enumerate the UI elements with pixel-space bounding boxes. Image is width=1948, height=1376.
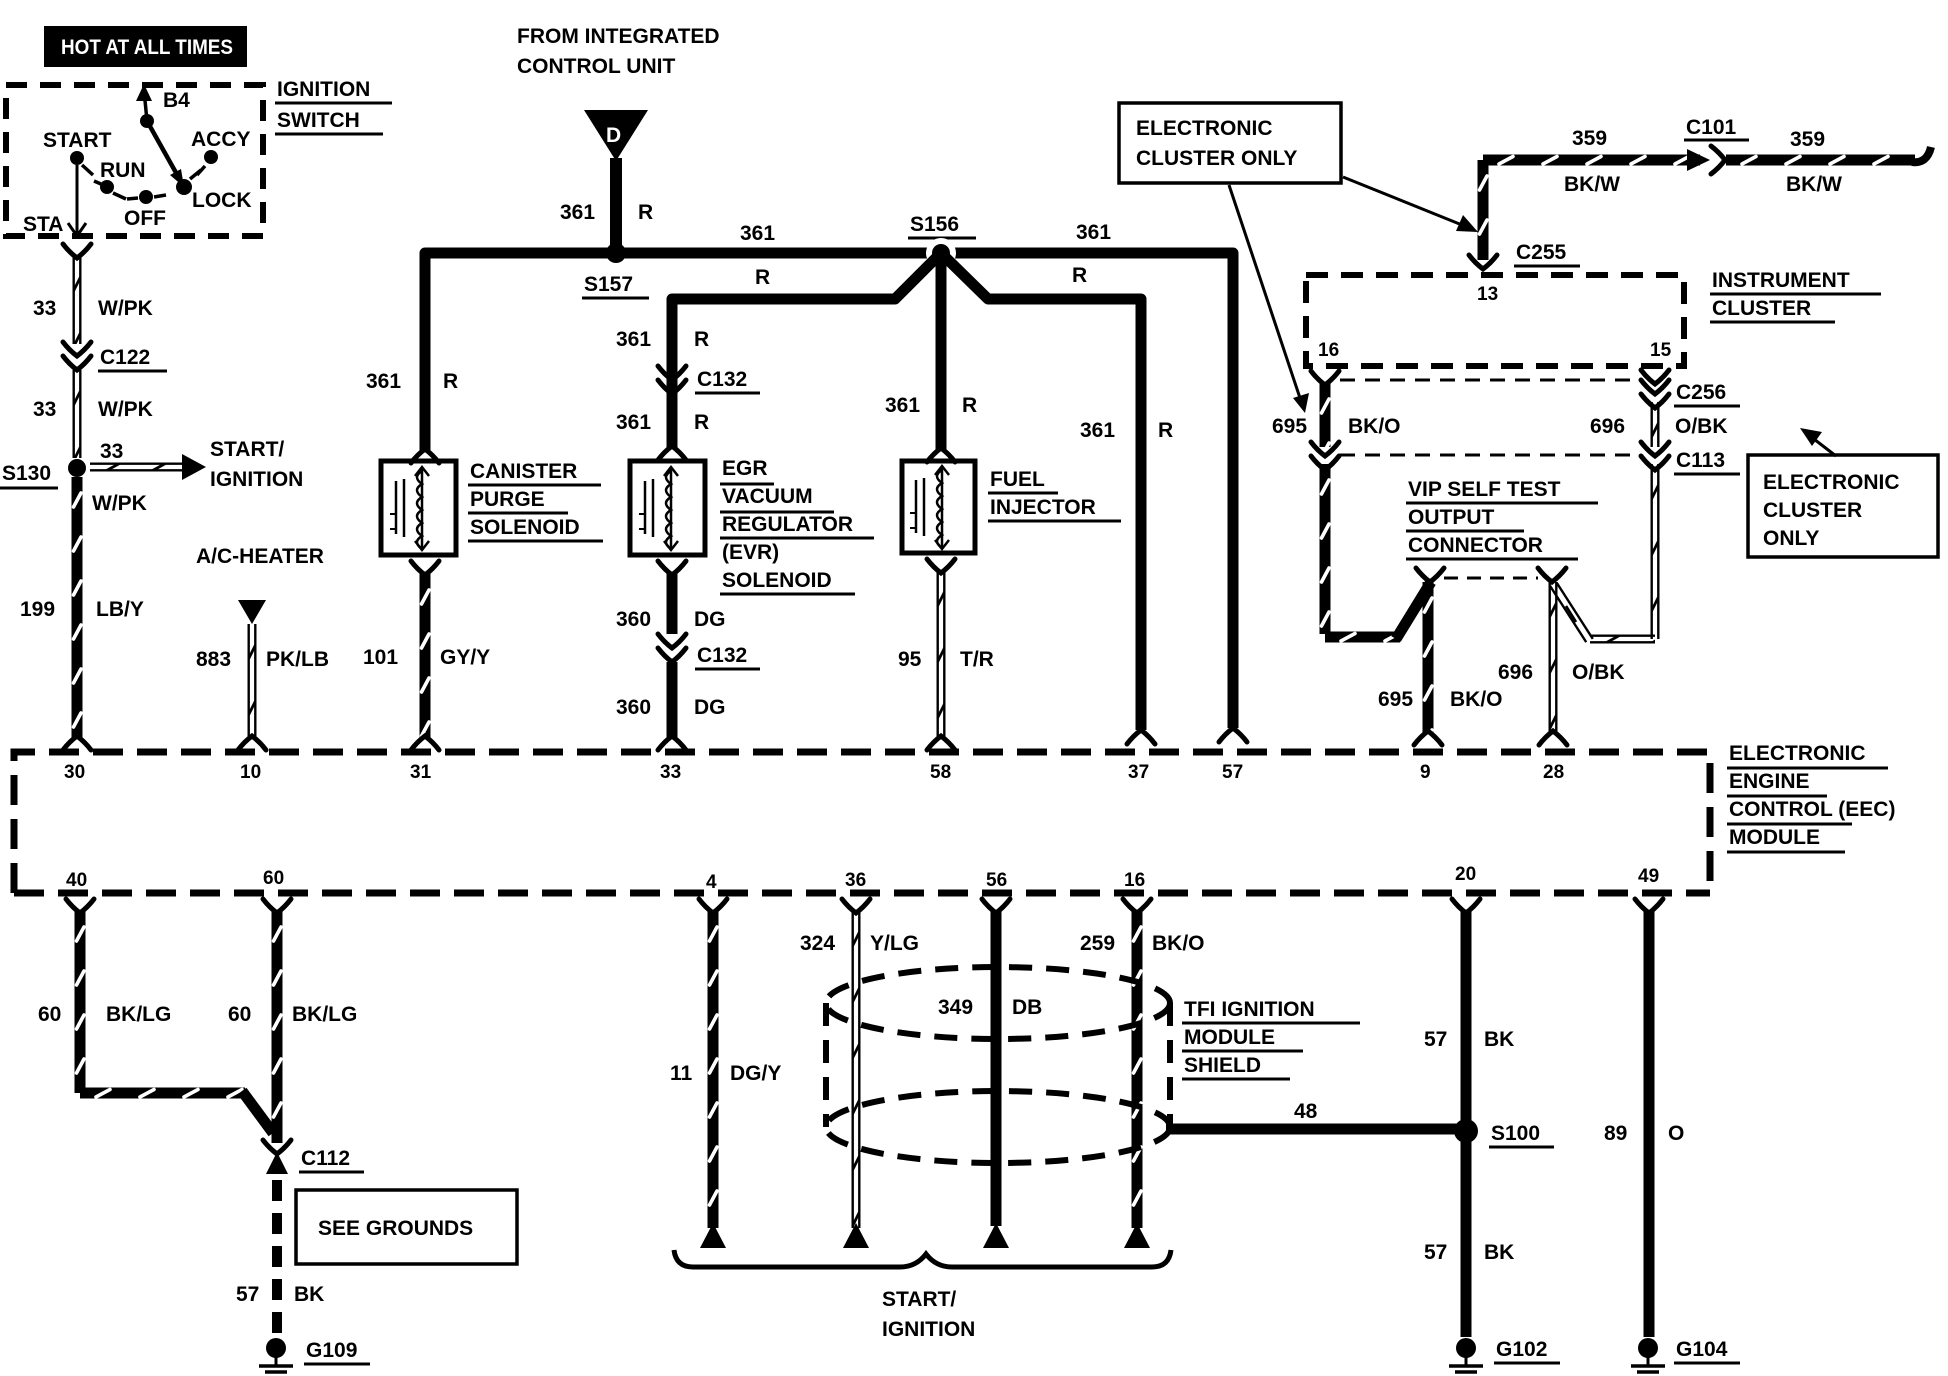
svg-text:199: 199: [20, 598, 55, 621]
LOCK contact: [176, 170, 252, 212]
pin 4: [706, 872, 717, 893]
label VIP SELF TEST OUTPUT CONNECTOR: [1406, 478, 1598, 559]
svg-text:A/C-HEATER: A/C-HEATER: [196, 545, 324, 568]
svg-text:360: 360: [616, 696, 651, 719]
svg-text:S130: S130: [2, 462, 51, 485]
svg-text:SEE GROUNDS: SEE GROUNDS: [318, 1217, 473, 1240]
wire 60 BK/LG from pin 60: [228, 899, 357, 1143]
svg-text:48: 48: [1294, 1100, 1318, 1123]
svg-text:33: 33: [33, 297, 56, 320]
svg-text:R: R: [1072, 264, 1087, 287]
pin 30: [64, 762, 85, 783]
wire 259 BK/O from pin 16: [1080, 899, 1205, 1248]
svg-text:DG: DG: [694, 696, 726, 719]
pin 49: [1638, 866, 1659, 887]
svg-text:20: 20: [1455, 864, 1476, 885]
svg-text:W/PK: W/PK: [98, 398, 153, 421]
svg-text:R: R: [962, 394, 977, 417]
svg-text:33: 33: [33, 398, 56, 421]
svg-text:RUN: RUN: [100, 159, 146, 182]
svg-text:57: 57: [1222, 762, 1243, 783]
svg-text:CANISTER: CANISTER: [470, 460, 577, 483]
svg-text:BK/O: BK/O: [1450, 688, 1503, 711]
svg-text:O: O: [1668, 1122, 1684, 1145]
svg-text:G109: G109: [306, 1339, 357, 1362]
svg-text:EGR: EGR: [722, 457, 768, 480]
svg-text:349: 349: [938, 996, 973, 1019]
svg-text:INJECTOR: INJECTOR: [990, 496, 1096, 519]
electronic engine control module box: [14, 752, 1710, 893]
wire 89 O from pin 49: [1604, 899, 1684, 1337]
wire 883 PK/LB: [196, 624, 329, 750]
VIP connector dashed outline top: [1340, 379, 1640, 382]
splice S100: [1454, 1119, 1554, 1147]
svg-text:R: R: [1158, 419, 1173, 442]
label TFI IGNITION MODULE SHIELD: [1182, 998, 1360, 1079]
svg-text:359: 359: [1790, 128, 1825, 151]
wire 695 BK/O to EEC pin 9: [1378, 582, 1503, 745]
label ELECTRONIC ENGINE CONTROL (EEC) MODULE: [1727, 742, 1895, 852]
svg-text:GY/Y: GY/Y: [440, 646, 490, 669]
svg-text:MODULE: MODULE: [1184, 1026, 1275, 1049]
pin 28: [1543, 762, 1564, 783]
connector C132: [658, 366, 760, 394]
svg-text:OFF: OFF: [124, 207, 166, 230]
svg-text:R: R: [694, 411, 709, 434]
pin 13: [1477, 284, 1498, 305]
svg-text:28: 28: [1543, 762, 1564, 783]
svg-text:95: 95: [898, 648, 922, 671]
wire 324 Y/LG from pin 36: [800, 899, 919, 1248]
svg-text:S100: S100: [1491, 1122, 1540, 1145]
svg-text:START: START: [43, 129, 112, 152]
svg-text:BK/O: BK/O: [1348, 415, 1401, 438]
svg-text:S156: S156: [910, 213, 959, 236]
wire 695 BK/O middle U-turn: [1320, 464, 1445, 643]
svg-text:LOCK: LOCK: [192, 189, 252, 212]
svg-text:BK: BK: [1484, 1028, 1514, 1051]
svg-text:BK: BK: [1484, 1241, 1514, 1264]
A/C-heater feed triangle: [238, 600, 266, 624]
svg-text:695: 695: [1272, 415, 1307, 438]
ignition switch terminal B4: [136, 84, 190, 128]
svg-text:360: 360: [616, 608, 651, 631]
wire 696 O/BK upper: [1590, 402, 1728, 447]
wire 33 W/PK from STA: [33, 244, 153, 344]
svg-text:259: 259: [1080, 932, 1115, 955]
svg-text:359: 359: [1572, 127, 1607, 150]
wire 361 R to EGR solenoid: [616, 253, 941, 448]
svg-text:60: 60: [263, 868, 284, 889]
svg-text:G104: G104: [1676, 1338, 1728, 1361]
svg-text:TFI IGNITION: TFI IGNITION: [1184, 998, 1315, 1021]
svg-text:ACCY: ACCY: [191, 128, 251, 151]
svg-text:BK/W: BK/W: [1564, 173, 1620, 196]
svg-text:57: 57: [1424, 1241, 1447, 1264]
svg-text:33: 33: [660, 762, 681, 783]
svg-text:START/: START/: [882, 1288, 956, 1311]
pin 56: [986, 870, 1007, 891]
svg-text:361: 361: [616, 328, 651, 351]
svg-text:STA: STA: [23, 213, 63, 236]
wire 349 DB from pin 56: [938, 899, 1042, 1248]
connector C256: [1641, 370, 1740, 408]
label START/IGNITION (bottom): [882, 1288, 975, 1341]
svg-text:C112: C112: [301, 1147, 350, 1170]
pin 15: [1650, 340, 1672, 361]
svg-text:DB: DB: [1012, 996, 1042, 1019]
svg-text:BK/W: BK/W: [1786, 173, 1842, 196]
svg-text:W/PK: W/PK: [98, 297, 153, 320]
fuel injector: [902, 461, 975, 553]
svg-text:324: 324: [800, 932, 835, 955]
svg-text:S157: S157: [584, 273, 633, 296]
wire 101 GY/Y: [363, 561, 490, 750]
svg-text:57: 57: [1424, 1028, 1447, 1051]
wire 359 BK/W right of C101: [1726, 128, 1931, 196]
canister purge solenoid: [381, 461, 456, 555]
svg-text:SHIELD: SHIELD: [1184, 1054, 1261, 1077]
svg-text:33: 33: [100, 440, 123, 463]
svg-text:SWITCH: SWITCH: [277, 109, 360, 132]
svg-text:361: 361: [1080, 419, 1115, 442]
brace start/ignition: [674, 1250, 1171, 1267]
svg-text:FUEL: FUEL: [990, 468, 1045, 491]
svg-text:INSTRUMENT: INSTRUMENT: [1712, 269, 1850, 292]
svg-text:16: 16: [1318, 340, 1339, 361]
ground G102: [1449, 1338, 1560, 1376]
svg-text:START/: START/: [210, 438, 284, 461]
svg-text:REGULATOR: REGULATOR: [722, 513, 853, 536]
svg-text:T/R: T/R: [960, 648, 994, 671]
svg-text:361: 361: [560, 201, 595, 224]
svg-text:R: R: [694, 328, 709, 351]
svg-text:883: 883: [196, 648, 231, 671]
wire 33 W/PK below C122: [33, 370, 153, 458]
svg-text:C256: C256: [1676, 381, 1726, 404]
svg-text:D: D: [606, 124, 621, 147]
label CANISTER PURGE SOLENOID: [468, 460, 603, 541]
svg-text:SOLENOID: SOLENOID: [470, 516, 580, 539]
instrument cluster box: [1306, 275, 1684, 366]
svg-text:C132: C132: [697, 644, 747, 667]
pin 9: [1420, 762, 1431, 783]
VIP connector dashed line C113: [1340, 454, 1638, 457]
svg-text:13: 13: [1477, 284, 1498, 305]
wire 361 R below C132: [616, 411, 709, 460]
wire 57 BK from pin 20: [1424, 899, 1514, 1124]
START contact: [43, 129, 112, 175]
svg-text:10: 10: [240, 762, 261, 783]
wire 359 BK/W left of C101: [1478, 127, 1701, 260]
svg-text:ENGINE: ENGINE: [1729, 770, 1810, 793]
connector C112: [263, 1140, 364, 1174]
svg-text:58: 58: [930, 762, 951, 783]
VIP connector dashed link: [1444, 577, 1538, 580]
wire 361 R to EEC pin 57: [1219, 728, 1247, 742]
svg-text:40: 40: [66, 870, 87, 891]
pin 33: [660, 762, 681, 783]
wire 696 O/BK middle U-turn: [1538, 464, 1660, 644]
wire 361 R from triangle D: [560, 158, 653, 253]
svg-text:OUTPUT: OUTPUT: [1408, 506, 1495, 529]
svg-text:361: 361: [740, 222, 775, 245]
label EGR VACUUM REGULATOR (EVR) SOLENOID: [720, 457, 874, 594]
wire 33 W/PK to start/ignition: [90, 440, 206, 515]
pin 37: [1128, 762, 1149, 783]
label IGNITION SWITCH: [275, 78, 392, 134]
label START/IGNITION: [210, 438, 303, 491]
svg-text:15: 15: [1650, 340, 1672, 361]
svg-text:4: 4: [706, 872, 717, 893]
svg-text:C101: C101: [1686, 116, 1737, 139]
RUN contact: [94, 159, 146, 199]
svg-text:BK/O: BK/O: [1152, 932, 1205, 955]
svg-text:SOLENOID: SOLENOID: [722, 569, 832, 592]
svg-text:BK: BK: [294, 1283, 324, 1306]
svg-text:DG/Y: DG/Y: [730, 1062, 781, 1085]
svg-text:Y/LG: Y/LG: [870, 932, 919, 955]
svg-text:696: 696: [1590, 415, 1625, 438]
label HOT AT ALL TIMES: [44, 26, 247, 67]
svg-text:DG: DG: [694, 608, 726, 631]
wire 361 R to EEC pin 37: [941, 253, 1173, 744]
svg-text:60: 60: [228, 1003, 251, 1026]
svg-text:16: 16: [1124, 870, 1145, 891]
svg-text:57: 57: [236, 1283, 259, 1306]
svg-text:C132: C132: [697, 368, 747, 391]
svg-text:30: 30: [64, 762, 85, 783]
svg-text:60: 60: [38, 1003, 61, 1026]
pin 16 cluster: [1318, 340, 1339, 361]
svg-text:49: 49: [1638, 866, 1659, 887]
svg-text:HOT AT ALL TIMES: HOT AT ALL TIMES: [61, 36, 233, 59]
svg-text:CONTROL UNIT: CONTROL UNIT: [517, 55, 675, 78]
svg-text:MODULE: MODULE: [1729, 826, 1820, 849]
wire 360 DG lower: [616, 662, 726, 750]
svg-text:ELECTRONIC: ELECTRONIC: [1763, 471, 1900, 494]
svg-text:C255: C255: [1516, 241, 1567, 264]
EGR vacuum regulator solenoid: [630, 461, 705, 555]
arrow from cluster only label to C255 wire: [1343, 177, 1478, 232]
pin 57: [1222, 762, 1243, 783]
svg-text:CLUSTER: CLUSTER: [1712, 297, 1811, 320]
connector C255: [1469, 241, 1580, 269]
ACCY contact: [191, 128, 251, 175]
svg-text:FROM INTEGRATED: FROM INTEGRATED: [517, 25, 720, 48]
label ELECTRONIC CLUSTER ONLY (top): [1119, 103, 1341, 183]
splice S157: [582, 243, 649, 298]
svg-text:36: 36: [845, 870, 866, 891]
svg-text:C122: C122: [100, 346, 150, 369]
svg-text:ONLY: ONLY: [1763, 527, 1819, 550]
svg-text:IGNITION: IGNITION: [277, 78, 370, 101]
ground G109: [259, 1338, 370, 1376]
label SEE GROUNDS: [296, 1190, 517, 1264]
label ELECTRONIC CLUSTER ONLY (right): [1748, 428, 1938, 557]
wire 57 BK to G102: [1424, 1138, 1514, 1337]
svg-text:BK/LG: BK/LG: [292, 1003, 357, 1026]
pin 31: [410, 762, 432, 783]
from integrated control unit triangle D: [584, 110, 648, 161]
pin 10: [240, 762, 261, 783]
svg-text:31: 31: [410, 762, 432, 783]
svg-text:CLUSTER ONLY: CLUSTER ONLY: [1136, 147, 1297, 170]
svg-text:695: 695: [1378, 688, 1413, 711]
STA output of ignition switch: [23, 165, 86, 236]
svg-text:O/BK: O/BK: [1572, 661, 1625, 684]
svg-text:361: 361: [1076, 221, 1111, 244]
svg-text:ELECTRONIC: ELECTRONIC: [1136, 117, 1273, 140]
svg-text:(EVR): (EVR): [722, 541, 779, 564]
label INSTRUMENT CLUSTER: [1710, 269, 1881, 322]
svg-text:G102: G102: [1496, 1338, 1547, 1361]
svg-text:CLUSTER: CLUSTER: [1763, 499, 1862, 522]
TFI ignition module shield: [826, 967, 1170, 1163]
pin 60: [263, 868, 284, 889]
bus wire 361 R: [425, 221, 1233, 728]
svg-text:56: 56: [986, 870, 1007, 891]
wire 48 shield drain: [1166, 1100, 1458, 1129]
connector C113 left: [1311, 442, 1339, 470]
svg-text:LB/Y: LB/Y: [96, 598, 144, 621]
OFF contact: [124, 190, 166, 230]
splice S156: [908, 213, 976, 268]
svg-text:PK/LB: PK/LB: [266, 648, 329, 671]
svg-text:PURGE: PURGE: [470, 488, 545, 511]
svg-text:696: 696: [1498, 661, 1533, 684]
wire 360 DG upper: [616, 561, 726, 634]
arrow from cluster only label to 695 wire: [1229, 185, 1309, 413]
ground G104: [1631, 1338, 1740, 1376]
wire 57 BK to G109: [236, 1180, 324, 1337]
svg-text:ELECTRONIC: ELECTRONIC: [1729, 742, 1866, 765]
svg-text:C113: C113: [1676, 449, 1725, 472]
connector C122: [63, 342, 167, 371]
wire 95 T/R: [898, 559, 994, 750]
wire 199 LB/Y: [20, 477, 144, 750]
svg-text:361: 361: [366, 370, 401, 393]
connector C132 lower: [658, 634, 760, 669]
label FROM INTEGRATED CONTROL UNIT: [517, 25, 720, 78]
splice S130: [0, 459, 86, 488]
svg-text:W/PK: W/PK: [92, 492, 147, 515]
label FUEL INJECTOR: [988, 468, 1121, 521]
pin 16: [1124, 870, 1145, 891]
pin 20: [1455, 864, 1476, 885]
wire 11 DG/Y from pin 4: [670, 899, 781, 1248]
svg-text:R: R: [755, 266, 770, 289]
wire 361 R to fuel injector: [885, 258, 977, 462]
svg-text:CONTROL (EEC): CONTROL (EEC): [1729, 798, 1895, 821]
svg-text:361: 361: [885, 394, 920, 417]
svg-text:IGNITION: IGNITION: [882, 1318, 975, 1341]
label A/C-HEATER: [196, 545, 324, 568]
svg-text:IGNITION: IGNITION: [210, 468, 303, 491]
connector C101: [1684, 116, 1749, 174]
svg-text:101: 101: [363, 646, 398, 669]
svg-text:VACUUM: VACUUM: [722, 485, 813, 508]
wire 696 O/BK to EEC pin 28: [1498, 582, 1625, 745]
ignition switch wiper arm: [147, 121, 184, 187]
svg-text:BK/LG: BK/LG: [106, 1003, 171, 1026]
svg-text:VIP SELF TEST: VIP SELF TEST: [1408, 478, 1561, 501]
wire 361 R to canister purge solenoid: [366, 370, 458, 463]
wire 60 BK/LG from pin 40: [38, 899, 273, 1133]
svg-text:37: 37: [1128, 762, 1149, 783]
connector C113 right: [1641, 442, 1740, 474]
svg-text:B4: B4: [163, 89, 190, 112]
pin 58: [930, 762, 951, 783]
svg-text:9: 9: [1420, 762, 1431, 783]
svg-text:O/BK: O/BK: [1675, 415, 1728, 438]
pin 40: [66, 870, 87, 891]
svg-text:CONNECTOR: CONNECTOR: [1408, 534, 1543, 557]
svg-text:R: R: [638, 201, 653, 224]
wire 695 BK/O upper: [1272, 371, 1401, 447]
svg-text:361: 361: [616, 411, 651, 434]
ignition switch box: [6, 85, 263, 236]
svg-text:R: R: [443, 370, 458, 393]
svg-text:89: 89: [1604, 1122, 1627, 1145]
svg-text:11: 11: [670, 1062, 693, 1085]
pin 36: [845, 870, 866, 891]
